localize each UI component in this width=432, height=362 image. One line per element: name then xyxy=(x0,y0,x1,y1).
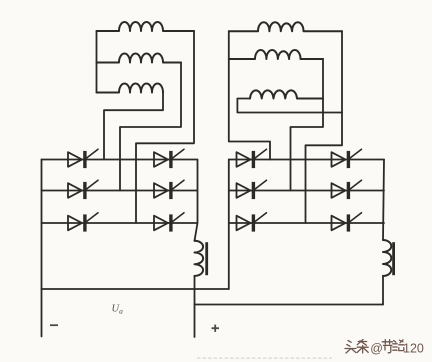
wire: Lb1 right drop to right bridge phase c xyxy=(306,31,343,223)
inductor La1 (left group top winding) xyxy=(97,22,195,31)
wire: right bridge left bus down to bottom rail xyxy=(228,160,230,290)
wire: parallel link between the two reactor outputs xyxy=(195,304,384,306)
wire: delta bus left side (Lb1/Lb2 left ends) to right bridge phase a xyxy=(229,31,270,159)
thyristor V5 (left bridge row3 left) xyxy=(68,213,98,232)
thyristor V11 (right bridge row3 left) xyxy=(237,213,267,232)
wire: left bridge right bus xyxy=(195,160,198,241)
wire: left bridge left bus (negative) down to - terminal xyxy=(41,160,43,337)
wire: bottom rail joining left bus to right bridge left bus xyxy=(42,288,229,290)
thyristor V2 (left bridge row1 right) xyxy=(154,149,184,168)
wire: right bridge row 2 xyxy=(229,190,384,192)
wire: right bridge row 3 xyxy=(229,222,384,224)
thyristor V10 (right bridge row2 right) xyxy=(332,180,362,199)
thyristor V7 (right bridge row1 left) xyxy=(237,149,267,168)
wire: left bridge row 3 xyxy=(42,222,198,224)
svg-text:@: @ xyxy=(370,342,383,356)
faint caption remnant at bottom xyxy=(197,357,332,359)
thyristor V8 (right bridge row1 right) xyxy=(332,149,362,168)
inductor Lb3 (right group bottom winding) xyxy=(250,90,323,98)
smoothing reactor Ld1 (iron core choke, left) xyxy=(195,241,209,276)
watermark 头条@节能120 xyxy=(345,340,404,354)
svg-text:120: 120 xyxy=(403,342,424,356)
wire: Lb3 left end jog joining Lb1 right drop xyxy=(237,99,342,113)
wire: right bridge right bus xyxy=(383,160,384,241)
wire: La2 output to left bridge phase node b xyxy=(120,63,181,191)
wire: star point bus of left transformer group xyxy=(96,31,98,93)
wire: left bridge row 1 xyxy=(42,159,198,161)
wire: right bridge row 1 xyxy=(229,159,384,161)
inductor Lb2 (right group middle winding) xyxy=(229,50,323,59)
thyristor V3 (left bridge row2 left) xyxy=(68,180,98,199)
smoothing reactor Ld2 (iron core choke, right) xyxy=(383,240,395,276)
thyristor V12 (right bridge row3 right) xyxy=(332,213,362,232)
wire: reactor Ld2 output down to parallel link xyxy=(382,276,384,305)
svg-text:Ua: Ua xyxy=(112,304,124,316)
inductor La3 (left group bottom winding) xyxy=(97,84,164,93)
thyristor V1 (left bridge row1 left) xyxy=(68,149,98,168)
wire: Lb2 right drop to right bridge phase b xyxy=(291,59,324,191)
wire: left bridge row 2 xyxy=(42,190,198,192)
thyristor V9 (right bridge row2 left) xyxy=(237,180,267,199)
thyristor V6 (left bridge row3 right) xyxy=(154,213,184,232)
inductor Lb1 (right group top winding) xyxy=(229,22,342,31)
inductor La2 (left group middle winding) xyxy=(97,54,182,63)
thyristor V4 (left bridge row2 right) xyxy=(154,180,184,199)
label minus terminal xyxy=(50,324,58,326)
wire: positive lead from reactor Ld1 down to + terminal xyxy=(194,276,196,337)
wire: La1 output to left bridge phase node c xyxy=(136,31,194,223)
wire: La3 output to left bridge phase node a xyxy=(104,93,163,160)
label plus terminal xyxy=(212,325,220,332)
